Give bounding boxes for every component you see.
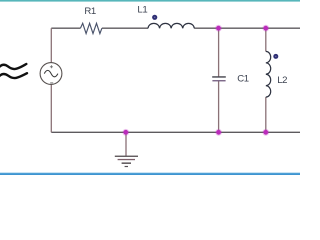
junction dot bottom C1	[215, 129, 222, 136]
wire: bottom horizontal rail y=132.3	[51, 131, 300, 133]
svg-text:L1: L1	[137, 4, 147, 15]
AC source plus mark	[50, 65, 53, 68]
L2 dot marker	[273, 54, 278, 59]
inductor L1 coil	[148, 23, 194, 28]
junction dot top L2	[262, 25, 269, 32]
AC source sine wave	[44, 70, 58, 76]
bottom blue border line	[0, 173, 300, 175]
svg-text:R1: R1	[84, 6, 96, 17]
svg-text:C1: C1	[237, 74, 249, 85]
inductor L2 coil	[266, 51, 271, 97]
wire: C1 branch vertical x=218.6	[218, 28, 220, 132]
resistor R1 zigzag	[80, 23, 102, 33]
junction dot top C1	[215, 25, 222, 32]
AC source V1 circle	[40, 63, 62, 85]
wavy crop scribble lower	[0, 73, 27, 78]
capacitor C1 plates	[212, 76, 226, 81]
ground stem	[125, 132, 127, 156]
wire: L2 branch vertical x=265.8	[265, 28, 267, 132]
AC source minus mark	[50, 82, 53, 84]
junction dot bottom L2	[262, 129, 269, 136]
wire: top horizontal rail y=28.2	[51, 27, 300, 29]
top teal border line	[0, 0, 300, 2]
wire: left vertical branch x=51.3	[50, 28, 52, 132]
junction dot ground	[122, 129, 129, 136]
svg-text:L2: L2	[277, 75, 287, 86]
L1 dot marker	[152, 15, 157, 20]
ground bars	[115, 156, 138, 167]
wavy crop scribble upper	[0, 64, 26, 69]
